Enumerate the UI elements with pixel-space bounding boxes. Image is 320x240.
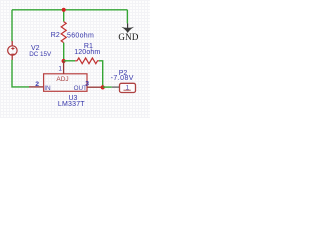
resistor R1 <box>75 58 99 64</box>
svg-text:ADJ: ADJ <box>56 76 68 83</box>
wire junction to probe <box>103 86 112 88</box>
wire V2 to IN pin (down and right) <box>12 60 29 87</box>
node junction top (R2/top rail) <box>62 8 66 12</box>
svg-text:3: 3 <box>85 81 89 88</box>
wire top rail <box>12 9 127 11</box>
svg-text:LM337T: LM337T <box>58 101 85 108</box>
svg-text:GND: GND <box>118 32 138 42</box>
svg-text:560ohm: 560ohm <box>67 33 94 40</box>
pin 3 OUT wire <box>87 86 103 88</box>
wire R2 top lead <box>63 10 65 22</box>
svg-text:2: 2 <box>35 81 39 88</box>
wire R2 bottom lead <box>63 43 65 61</box>
svg-text:R2: R2 <box>51 32 60 39</box>
svg-text:DC 15V: DC 15V <box>29 51 52 58</box>
probe P2 body <box>120 83 136 92</box>
pin 2 IN wire <box>29 86 44 88</box>
probe P2 lead <box>112 86 120 88</box>
ground <box>118 23 138 42</box>
node junction mid (R2/R1/ADJ) <box>62 59 66 63</box>
wire R1 right corner down <box>99 61 103 88</box>
wire left vertical from top rail to V2 <box>11 10 13 42</box>
pin 1 ADJ wire <box>63 61 65 74</box>
svg-text:1: 1 <box>58 66 62 73</box>
svg-text:IN: IN <box>44 85 51 92</box>
voltage source V2 <box>8 41 17 60</box>
node junction right (OUT/R1/probe) <box>101 85 105 89</box>
resistor R2 <box>61 22 66 43</box>
wire R1 left lead <box>64 60 75 62</box>
svg-text:-7.08V: -7.08V <box>111 75 134 82</box>
op-amp U3 regulator body <box>44 74 87 92</box>
ground wire <box>126 10 128 24</box>
svg-text:120ohm: 120ohm <box>74 49 100 56</box>
